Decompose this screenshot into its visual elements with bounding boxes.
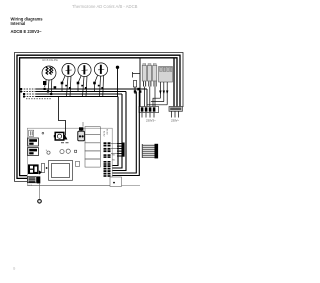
PCB bottom wire: [27, 184, 140, 186]
connector pin group P1: [104, 142, 111, 146]
fan motor M1: [62, 63, 75, 76]
svg-text:Thermozone AD Corint A/B - ADC: Thermozone AD Corint A/B - ADCB: [72, 4, 138, 9]
node dot: [46, 167, 48, 169]
svg-text:ADCB E 230V3~: ADCB E 230V3~: [11, 29, 43, 34]
ribbon cable connector CN2: [142, 144, 158, 159]
connector pin group P3: [104, 154, 111, 158]
supply strip 230V3~: [139, 107, 159, 113]
terminal block X1 (left, 3-pole): [142, 64, 157, 81]
diode D1: [75, 150, 77, 152]
svg-text:Internal: Internal: [11, 21, 26, 26]
wire: inner thick border loop: [20, 58, 177, 176]
component housing: [41, 164, 44, 173]
terminal strip TB1: [28, 177, 37, 183]
relay K3: [28, 164, 39, 174]
bus wires horizontal: [36, 88, 147, 90]
relay K1: [28, 138, 39, 146]
hook terminal triangle: [64, 136, 68, 140]
capacitor stub tick: [133, 73, 141, 75]
room sensor B1: [38, 199, 42, 203]
jumper header JP1: [29, 130, 34, 136]
X2 drop wires with spade terminals: [159, 82, 161, 98]
wire: middle thick border loop: [17, 55, 180, 178]
wire pair from bus junction down: [113, 92, 137, 174]
svg-text:1 2 3: 1 2 3: [28, 185, 32, 187]
svg-text:B1 B2: B1 B2: [106, 129, 108, 136]
connector pin group P6: [104, 175, 111, 177]
comb connector CN1: [111, 143, 125, 157]
svg-text:M2: M2: [113, 160, 116, 162]
small box with node: [110, 177, 122, 186]
X1 drop wires: [144, 87, 146, 108]
transistor Q3: [66, 149, 70, 153]
junction dots element: [44, 88, 46, 90]
arrow terminal: [39, 170, 42, 174]
transistor Q1: [47, 151, 50, 154]
bus1 bend into strip: [146, 89, 148, 107]
relay bank rows: [85, 127, 100, 168]
connector pin group P5: [104, 165, 111, 174]
earth stub wire with node dot: [116, 66, 119, 69]
sensor lead wire: [39, 183, 41, 199]
fuse F1: [133, 81, 136, 88]
relay K2: [28, 148, 39, 156]
PCB outline: [27, 128, 112, 185]
M1 leg wires: [62, 76, 65, 83]
230V3~ stub wires: [142, 113, 154, 118]
buzzer BZ1 square with circle: [54, 132, 65, 140]
small part right of T1: [76, 161, 80, 166]
wire bus3 bend down right of PCB: [113, 97, 119, 166]
fan motor M3: [94, 63, 107, 76]
M2 leg wires: [78, 76, 81, 83]
230V~ stub wires: [172, 111, 179, 117]
wire: fourth supply line right: [173, 58, 175, 107]
element terminal blob: [43, 81, 46, 85]
junction dots near bus right end: [134, 90, 136, 92]
terminal block X2 (right): [159, 67, 173, 83]
X1 pins below: [144, 81, 157, 86]
wire bus to PCB hook: [59, 97, 66, 136]
heating element circle E1: [42, 66, 56, 80]
bend wires X2 to strip: [153, 98, 160, 107]
wire: outer thin border loop: [15, 53, 184, 182]
wire bus1 bend down right of PCB: [113, 92, 127, 171]
transistor Q2: [60, 150, 64, 154]
M3 leg wires: [95, 76, 98, 84]
svg-text:ADCB 93E-95E: ADCB 93E-95E: [42, 59, 58, 62]
wire bus2 bend down right of PCB: [113, 94, 123, 168]
connector pin group P4: [104, 161, 111, 165]
svg-text:230V~: 230V~: [171, 119, 180, 123]
test point TP1: [42, 132, 44, 134]
wire into relay bank top: [82, 122, 84, 127]
svg-text:230V3~: 230V3~: [146, 119, 156, 123]
fan motor M2: [78, 63, 91, 76]
supply strip 230V~: [169, 107, 182, 112]
svg-text:M1: M1: [113, 155, 116, 157]
capacitor C1 can: [78, 127, 85, 141]
transformer T1: [49, 161, 73, 181]
black terminal block: [37, 176, 41, 183]
dashed bus left ends: [21, 88, 36, 90]
element leg wires: [45, 80, 47, 87]
svg-text:A1 A2: A1 A2: [103, 131, 106, 137]
bus-to-border junction dots: [20, 88, 22, 90]
wire from top border to supply strip: [139, 58, 141, 107]
spade terminals: [159, 91, 161, 95]
connector pin group P2: [104, 148, 111, 152]
